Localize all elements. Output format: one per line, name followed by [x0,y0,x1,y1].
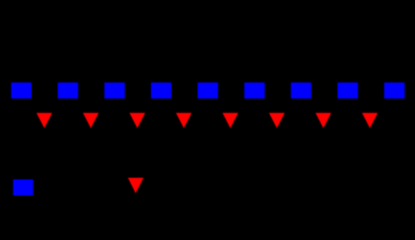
blue square marker 3 [104,83,124,99]
blue square marker 6 [244,83,264,99]
red triangle marker 1 [36,113,52,128]
red triangle marker 7 [316,113,332,128]
red triangle marker 2 [83,113,99,128]
blue square marker 5 [198,83,218,99]
blue square marker 4 [151,83,171,99]
legend red triangle [128,178,144,194]
red triangle marker 3 [129,113,145,128]
red triangle marker 5 [222,113,238,128]
red triangle marker 6 [269,113,285,128]
blue square marker 8 [338,83,358,99]
red triangle marker 8 [362,113,378,128]
legend blue square [13,179,33,195]
blue square marker 7 [291,83,311,99]
blue square marker 1 [11,83,31,99]
blue square marker 2 [58,83,78,99]
red triangle marker 4 [176,113,192,128]
blue square marker 9 [384,83,404,99]
